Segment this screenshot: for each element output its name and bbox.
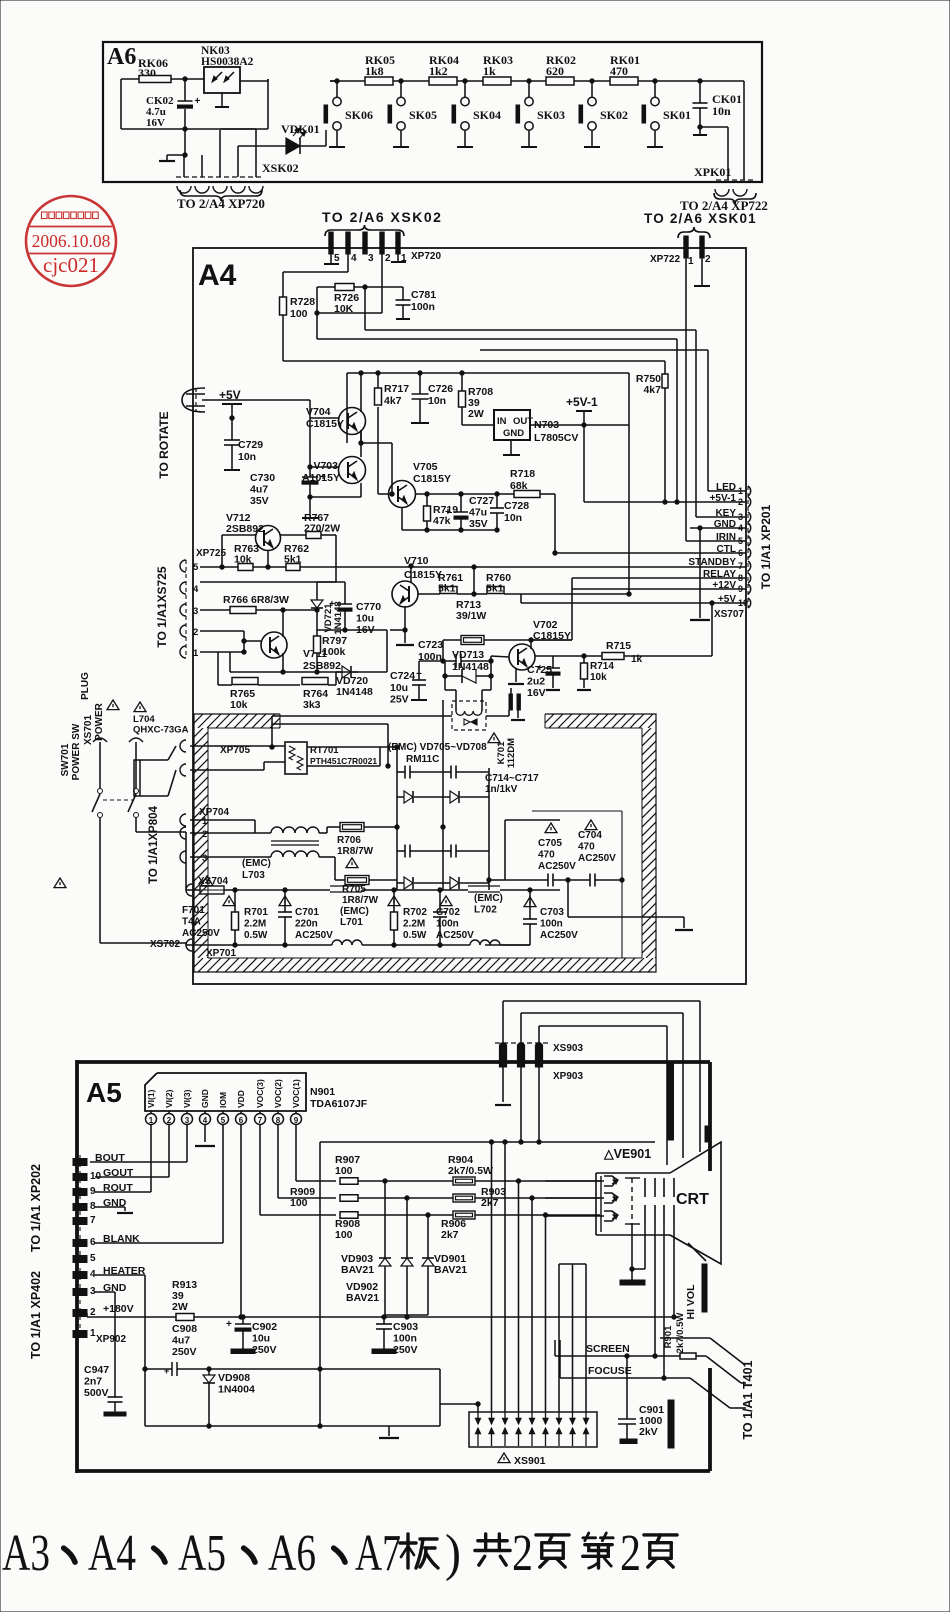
- svg-text:1N4148: 1N4148: [452, 661, 489, 673]
- svg-text:C702: C702: [436, 907, 460, 918]
- CRT funnel: [596, 1142, 721, 1264]
- svg-text:7: 7: [738, 561, 743, 571]
- svg-text:2: 2: [202, 829, 207, 840]
- svg-text:C1815Y: C1815Y: [404, 569, 442, 581]
- wire XP725 row1: [200, 631, 246, 654]
- svg-text:C908: C908: [172, 1323, 197, 1335]
- resistor RK02: [546, 53, 576, 85]
- resistor R717: [375, 371, 410, 407]
- hatch frame top-left: [180, 714, 293, 728]
- svg-text:4: 4: [351, 253, 357, 264]
- IR receiver NK03: [201, 45, 254, 107]
- wire STANDBY row: [200, 565, 746, 569]
- capacitor C902: [226, 1315, 277, 1356]
- svg-text:5k1: 5k1: [438, 583, 456, 595]
- capacitor C781: [396, 287, 437, 319]
- wire SCREEN: [555, 1340, 680, 1358]
- wire mains top entry: [505, 819, 560, 821]
- resistor R701: [196, 888, 268, 947]
- wire crt drops: [559, 1264, 586, 1280]
- svg-text:A6: A6: [268, 1525, 316, 1582]
- svg-text:BAV21: BAV21: [346, 1292, 379, 1304]
- capacitor C903: [372, 1317, 418, 1356]
- svg-text:GND: GND: [200, 1089, 210, 1108]
- svg-text:VD713: VD713: [452, 649, 484, 661]
- wire rail1142: [320, 1140, 655, 1144]
- capacitor C714: [397, 766, 443, 779]
- wire XP720 pin5 gnd: [324, 254, 339, 264]
- svg-text:470: 470: [578, 842, 595, 853]
- svg-text:100n: 100n: [411, 301, 435, 313]
- svg-text:10u: 10u: [356, 613, 374, 625]
- filter L702: [440, 886, 530, 945]
- svg-text:C726: C726: [428, 383, 453, 395]
- capacitor C701: [235, 888, 333, 947]
- svg-text:4u7: 4u7: [250, 484, 268, 496]
- svg-text:2: 2: [705, 254, 711, 265]
- svg-text:2k7: 2k7: [481, 1197, 499, 1209]
- caption dun3: [244, 1548, 255, 1562]
- wire standby riser: [473, 567, 475, 594]
- inner board rect: [532, 811, 622, 958]
- svg-text:AC250V: AC250V: [436, 930, 474, 941]
- CRT anode: [685, 1243, 707, 1320]
- caption A7: [355, 1525, 401, 1582]
- wire XS903 wrap3: [539, 1026, 667, 1165]
- svg-text:100: 100: [290, 1197, 308, 1209]
- capacitor C908: [143, 1323, 209, 1376]
- label TO 2/A6 XSK02: [322, 209, 442, 236]
- svg-text:+: +: [226, 1319, 232, 1330]
- wires to T401: [660, 1338, 746, 1408]
- svg-text:5k1: 5k1: [486, 583, 504, 595]
- wire FOCUSE: [560, 1340, 690, 1380]
- svg-text:25V: 25V: [390, 694, 409, 706]
- svg-text:250V: 250V: [252, 1344, 277, 1356]
- wire mains neutral: [100, 847, 196, 945]
- svg-text:3: 3: [193, 606, 198, 617]
- wire G2 drop: [632, 1224, 645, 1269]
- caption dun4: [334, 1548, 345, 1562]
- capacitor C770: [317, 582, 381, 636]
- resistor RK03: [483, 53, 513, 85]
- svg-text:10n: 10n: [428, 395, 446, 407]
- svg-text:XSK02: XSK02: [262, 161, 299, 175]
- caption gong: [475, 1534, 510, 1565]
- switch SK03: [516, 79, 565, 147]
- capacitor C702: [394, 888, 474, 947]
- label C714~C717: [485, 773, 539, 795]
- wire KEY row: [696, 516, 746, 518]
- resistor R761: [418, 572, 476, 596]
- red stamp: [26, 196, 116, 286]
- svg-text:250V: 250V: [172, 1346, 197, 1358]
- svg-text:A4: A4: [88, 1525, 136, 1582]
- connector XP902: [73, 1152, 146, 1345]
- wire XP704 p1: [190, 820, 255, 833]
- resistor R708: [459, 371, 495, 425]
- svg-text:TO 2/A6 XSK01: TO 2/A6 XSK01: [644, 211, 757, 226]
- wire 5V1 row: [584, 501, 746, 503]
- capacitor CK01: [693, 79, 743, 135]
- resistor R913: [172, 1279, 674, 1321]
- svg-text:TO 1/A1 XP402: TO 1/A1 XP402: [29, 1271, 43, 1359]
- svg-text:AC250V: AC250V: [182, 928, 220, 939]
- label TO 2/A6 XSK01b: [644, 211, 757, 238]
- svg-text:XP722: XP722: [650, 254, 680, 265]
- wire XP720 pin4: [283, 254, 348, 272]
- IC N901: [145, 1073, 368, 1111]
- wire GND8: [95, 1207, 133, 1213]
- svg-text:L704: L704: [133, 714, 155, 725]
- svg-text:GND: GND: [503, 428, 524, 439]
- transistor V702: [508, 619, 571, 684]
- diode VD721: [300, 582, 345, 635]
- wire GND3b: [95, 1292, 115, 1352]
- svg-text:(EMC): (EMC): [474, 893, 503, 904]
- wire bus3: [480, 350, 708, 491]
- wire +180V: [87, 1313, 176, 1317]
- svg-text:2n7: 2n7: [84, 1376, 102, 1388]
- hatch frame left: [0, 728, 437, 958]
- wire bus4: [283, 360, 665, 362]
- wire XS903 down3: [538, 1067, 540, 1142]
- svg-text:C705: C705: [538, 838, 562, 849]
- svg-text:4: 4: [193, 584, 199, 595]
- svg-text:100k: 100k: [322, 646, 346, 658]
- svg-text:L701: L701: [340, 917, 363, 928]
- connector XS903: [495, 1043, 583, 1082]
- wire +12V row: [572, 588, 746, 590]
- svg-text:4: 4: [203, 1116, 208, 1125]
- svg-text:POWER SW: POWER SW: [71, 723, 82, 780]
- svg-text:AC250V: AC250V: [540, 930, 578, 941]
- wire VOC3: [260, 1125, 336, 1215]
- resistor R718: [510, 468, 557, 555]
- connector XP720: [329, 232, 442, 264]
- svg-text:6: 6: [239, 1116, 244, 1125]
- capacitor C728: [490, 494, 529, 530]
- diode VD720: [336, 628, 387, 698]
- hatch frame right: [412, 728, 885, 958]
- svg-text:R706: R706: [337, 835, 361, 846]
- svg-text:(EMC): (EMC): [340, 906, 369, 917]
- svg-text:R766 6R8/3W: R766 6R8/3W: [223, 594, 289, 606]
- svg-text:5: 5: [334, 253, 340, 264]
- svg-text:V703: V703: [313, 460, 338, 472]
- wire V702 base: [491, 656, 509, 661]
- svg-text:XS702: XS702: [150, 939, 180, 950]
- wire VOC1: [296, 1125, 336, 1181]
- svg-text:1: 1: [202, 816, 208, 827]
- resistor R702: [388, 888, 427, 947]
- resistor R908: [335, 1212, 600, 1241]
- svg-text:L703: L703: [242, 870, 265, 881]
- resistor R705: [335, 857, 397, 906]
- capacitor C724: [390, 661, 443, 706]
- svg-text:1: 1: [688, 256, 694, 267]
- svg-text:1k2: 1k2: [429, 64, 448, 78]
- capacitor C725: [527, 656, 560, 699]
- svg-text:QHXC-73GA: QHXC-73GA: [133, 725, 189, 736]
- svg-text:R717: R717: [384, 383, 409, 395]
- label A4: [198, 259, 237, 292]
- caption A5: [178, 1525, 226, 1582]
- caption paren: [445, 1525, 461, 1582]
- wire VDD: [239, 1125, 243, 1319]
- svg-text:XS903: XS903: [553, 1043, 583, 1054]
- CRT grid G1: [625, 1178, 640, 1224]
- svg-text:10n: 10n: [504, 512, 522, 524]
- resistor RK06: [121, 56, 204, 83]
- resistor R762: [284, 543, 309, 571]
- svg-text:RM11C: RM11C: [406, 754, 439, 765]
- wire focus drop: [664, 1224, 676, 1378]
- wire xs901 left: [440, 1369, 478, 1426]
- connector XP722: [650, 236, 711, 267]
- wire XS903 down1: [495, 1067, 511, 1105]
- hatch frame bottom: [180, 958, 662, 972]
- resistor R715: [600, 601, 714, 665]
- svg-text:(EMC) VD705~VD708: (EMC) VD705~VD708: [388, 742, 487, 753]
- wire V702 collector: [531, 639, 572, 641]
- svg-text:AC250V: AC250V: [295, 930, 333, 941]
- resistor R764: [302, 678, 336, 712]
- svg-text:5: 5: [221, 1116, 226, 1125]
- svg-text:R701: R701: [244, 907, 268, 918]
- wire V705 row: [415, 492, 514, 496]
- svg-text:R718: R718: [510, 468, 535, 480]
- svg-text:VI(3): VI(3): [182, 1089, 192, 1108]
- svg-text:+: +: [164, 1366, 169, 1376]
- svg-text:2: 2: [385, 253, 391, 264]
- wire LED row: [708, 490, 746, 492]
- posistor RT701: [285, 742, 377, 774]
- svg-text:5: 5: [193, 562, 199, 573]
- hatch frame border: [194, 714, 656, 972]
- resistor R713: [443, 599, 572, 661]
- wire mid rail: [318, 1142, 322, 1426]
- switch SK04: [452, 79, 501, 147]
- svg-text:3: 3: [202, 853, 207, 864]
- svg-text:100n: 100n: [436, 919, 459, 930]
- svg-text:+5V-1: +5V-1: [566, 395, 598, 409]
- label TO 1/A1 XP202: [29, 1164, 43, 1252]
- resistor R763: [234, 543, 259, 571]
- svg-text:1: 1: [149, 1116, 154, 1125]
- svg-text:VDD: VDD: [236, 1090, 246, 1108]
- svg-text:T4A: T4A: [182, 917, 201, 928]
- svg-text:TO 1/A1 T401: TO 1/A1 T401: [741, 1360, 755, 1439]
- wire GOUT: [95, 1125, 169, 1177]
- CRT grids: [645, 1178, 674, 1224]
- bridge label: [388, 742, 487, 765]
- svg-text:VOC(3): VOC(3): [255, 1079, 265, 1108]
- svg-text:2: 2: [512, 1525, 533, 1582]
- wire GND row: [690, 526, 746, 620]
- filter L703: [190, 827, 340, 881]
- wire relay contacts: [272, 710, 509, 768]
- svg-text:TO 1/A1XS725: TO 1/A1XS725: [155, 566, 169, 647]
- svg-text:VI(2): VI(2): [164, 1089, 174, 1108]
- wire ROUT: [95, 1125, 151, 1192]
- resistor RK04: [429, 53, 459, 85]
- wire +9V rail: [347, 373, 629, 594]
- svg-text:A5: A5: [178, 1525, 226, 1582]
- svg-text:SK02: SK02: [600, 108, 628, 122]
- svg-text:C947: C947: [84, 1364, 109, 1376]
- label T401: [741, 1360, 755, 1439]
- wire screen drop: [654, 1224, 656, 1356]
- connector XSK02 arcs: [177, 161, 299, 193]
- svg-text:): ): [445, 1525, 461, 1582]
- resistor R726: [334, 284, 359, 316]
- svg-text:SK01: SK01: [663, 108, 691, 122]
- svg-text:A5: A5: [86, 1077, 122, 1108]
- svg-text:XP902: XP902: [96, 1334, 126, 1345]
- hatch frame top-right: [531, 714, 662, 728]
- connector XSK02 pins: [176, 129, 264, 177]
- caption dun2: [154, 1548, 165, 1562]
- svg-text:3: 3: [185, 1116, 190, 1125]
- svg-text:V705: V705: [413, 461, 438, 473]
- svg-text:IN: IN: [497, 416, 507, 427]
- svg-text:+5V: +5V: [219, 388, 241, 402]
- svg-text:R714: R714: [590, 661, 614, 672]
- svg-text:7: 7: [90, 1215, 96, 1226]
- svg-text:XP720: XP720: [411, 251, 441, 262]
- svg-text:C703: C703: [540, 907, 564, 918]
- svg-text:470: 470: [538, 850, 555, 861]
- connector XS901: [469, 1412, 597, 1467]
- svg-text:PTH451C7R0021: PTH451C7R0021: [310, 756, 377, 766]
- diode VD705: [397, 791, 443, 803]
- relay K701: [452, 701, 517, 768]
- power switch SW701: [54, 672, 143, 888]
- svg-text:SK05: SK05: [409, 108, 437, 122]
- node +5V: [219, 388, 242, 440]
- svg-text:2SB892: 2SB892: [303, 660, 341, 672]
- caption A4: [88, 1525, 136, 1582]
- svg-text:C1815Y: C1815Y: [413, 473, 451, 485]
- fuse F701: [182, 876, 235, 939]
- switch SK02: [579, 79, 628, 147]
- svg-text:1: 1: [193, 648, 199, 659]
- wire RK06 loop: [121, 79, 268, 129]
- caption di: [583, 1533, 613, 1568]
- svg-text:VDK01: VDK01: [281, 122, 320, 136]
- svg-text:C770: C770: [356, 601, 381, 613]
- caption 2b: [620, 1525, 641, 1582]
- wire relay staircase: [445, 661, 491, 701]
- svg-text:2k7/0.5W: 2k7/0.5W: [448, 1165, 493, 1177]
- svg-text:SCREEN: SCREEN: [586, 1343, 630, 1355]
- svg-text:VI(1): VI(1): [146, 1089, 156, 1108]
- svg-text:2k7/0.5W: 2k7/0.5W: [675, 1313, 686, 1354]
- diode VD902: [346, 1198, 413, 1317]
- caption 2a: [512, 1525, 533, 1582]
- svg-text:(EMC): (EMC): [242, 858, 271, 869]
- wire XP722 pin2 gnd: [694, 258, 710, 286]
- wire bus drop 5V1a: [675, 339, 679, 504]
- diode VD713: [443, 649, 493, 683]
- svg-text:C701: C701: [295, 907, 319, 918]
- CRT gun ground: [620, 1224, 645, 1285]
- wire XS903 down2: [520, 1067, 522, 1142]
- svg-text:2.2M: 2.2M: [244, 919, 266, 930]
- svg-text:A3: A3: [2, 1525, 50, 1582]
- wire XS903 wrap2: [521, 1013, 683, 1158]
- resistor R901: [663, 1313, 706, 1359]
- svg-text:10u: 10u: [252, 1333, 270, 1345]
- svg-text:+: +: [445, 507, 451, 518]
- label TO 1/A1 XP402: [29, 1271, 43, 1359]
- resistor RK05: [365, 53, 395, 85]
- transistor V711: [244, 608, 341, 672]
- svg-text:R715: R715: [606, 640, 631, 652]
- svg-text:XP725: XP725: [196, 548, 226, 559]
- resistor R903: [453, 1186, 506, 1209]
- resistor R904: [448, 1154, 493, 1185]
- svg-text:POWER: POWER: [94, 702, 105, 741]
- svg-text:TDA6107JF: TDA6107JF: [310, 1098, 368, 1110]
- transistor V712: [220, 512, 281, 569]
- svg-text:2u2: 2u2: [527, 676, 545, 688]
- wire V702 out: [553, 654, 600, 658]
- svg-text:CRT: CRT: [676, 1191, 709, 1208]
- svg-text:2: 2: [193, 627, 198, 638]
- wire V704 junction: [359, 441, 392, 445]
- wire XP720 pin1 gnd: [391, 254, 406, 262]
- transistor V703: [302, 430, 365, 497]
- resistor R760: [474, 572, 629, 595]
- svg-text:C724: C724: [390, 670, 415, 682]
- connector TO ROTATE: [157, 388, 205, 479]
- resistor R767: [280, 512, 340, 582]
- resistor R714: [577, 656, 614, 690]
- svg-text:0.5W: 0.5W: [403, 930, 427, 941]
- svg-text:C728: C728: [504, 500, 529, 512]
- svg-text:470: 470: [610, 64, 628, 78]
- svg-text:A7: A7: [355, 1525, 401, 1582]
- degauss coil L704: [133, 702, 189, 796]
- capacitor C716: [397, 845, 443, 858]
- filter L701: [285, 886, 394, 945]
- svg-text:L702: L702: [474, 905, 497, 916]
- svg-text:2k7: 2k7: [441, 1229, 459, 1241]
- svg-text:SK04: SK04: [473, 108, 501, 122]
- wire XP722 pin1: [685, 258, 687, 541]
- capacitor C947: [84, 1352, 126, 1416]
- svg-text:0.5W: 0.5W: [244, 930, 268, 941]
- connector XP705: [180, 740, 285, 776]
- svg-text:SK03: SK03: [537, 108, 565, 122]
- svg-text:47u: 47u: [469, 507, 487, 519]
- capacitor C703: [485, 888, 578, 945]
- svg-text:100: 100: [335, 1165, 353, 1177]
- svg-text:3k3: 3k3: [303, 699, 321, 711]
- svg-text:PLUG: PLUG: [80, 672, 91, 700]
- svg-text:SK06: SK06: [345, 108, 373, 122]
- svg-text:VOC(1): VOC(1): [291, 1079, 301, 1108]
- connector XS702: [150, 884, 236, 959]
- wire RELAY row: [572, 578, 746, 640]
- svg-text:HI VOL: HI VOL: [685, 1284, 697, 1320]
- svg-text:1R8/7W: 1R8/7W: [342, 895, 379, 906]
- svg-text:C714~C717: C714~C717: [485, 773, 539, 784]
- wire degauss riser: [270, 716, 274, 749]
- svg-text:R728: R728: [290, 296, 315, 308]
